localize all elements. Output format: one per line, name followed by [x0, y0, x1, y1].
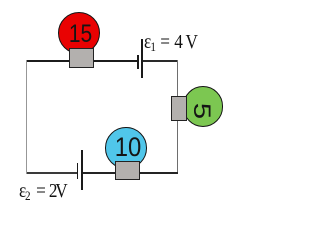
battery E2 short plate (negative terminal) — [77, 163, 79, 179]
battery E2 tall plate (positive terminal) — [81, 150, 83, 190]
wire top-right segment (battery E1 tall plate to top-right corner) — [142, 60, 178, 62]
lamp L1 globe (red bulb, value 15) — [58, 12, 100, 54]
lamp L2 value label 5 (rotated 90deg clockwise) — [186, 92, 216, 129]
battery E1 tall plate (positive terminal) — [141, 39, 143, 78]
wire bottom-left segment (bottom-left corner to battery E2 short plate) — [26, 172, 77, 174]
wire top-left segment (corner to battery E1 short plate) — [26, 60, 138, 62]
wire bottom-right segment (battery E2 tall plate to bottom-right corner) — [83, 172, 179, 174]
lamp L3 globe (cyan bulb, value 10) — [105, 127, 147, 169]
lamp L3 value label 10 — [108, 134, 149, 160]
lamp L2 globe (green bulb, value 5) — [183, 86, 223, 126]
wire left side (top-left corner down to bottom-left corner) — [26, 60, 28, 174]
lamp L1 base — [69, 48, 95, 68]
lamp L1 value label 15 — [63, 22, 99, 47]
EMF label epsilon-2 = 2V — [19, 181, 68, 206]
EMF label epsilon-1 = 4 V — [144, 32, 198, 57]
battery E1 short plate (negative terminal) — [137, 55, 139, 69]
wire right side (top-right corner down to bottom-right corner) — [177, 60, 179, 174]
lamp L3 base — [115, 161, 140, 180]
lamp L2 base — [171, 96, 187, 121]
